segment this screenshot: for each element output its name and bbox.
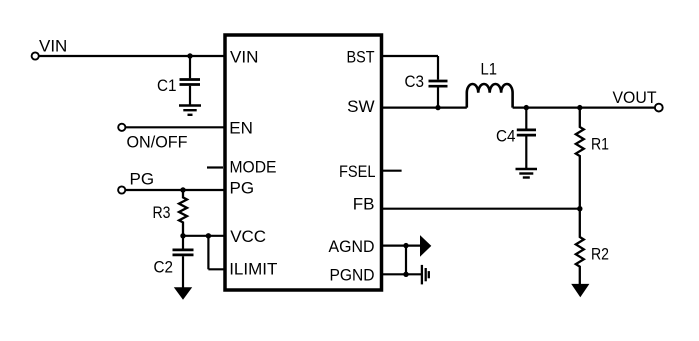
svg-text:C2: C2 — [154, 258, 174, 277]
svg-text:AGND: AGND — [329, 237, 375, 256]
svg-text:BST: BST — [347, 47, 375, 66]
svg-text:C4: C4 — [496, 127, 516, 146]
svg-text:R1: R1 — [591, 135, 609, 154]
svg-text:FB: FB — [353, 195, 375, 214]
svg-text:ILIMIT: ILIMIT — [229, 259, 277, 278]
svg-text:EN: EN — [229, 119, 253, 138]
svg-text:PG: PG — [130, 170, 155, 189]
svg-text:ON/OFF: ON/OFF — [127, 133, 188, 152]
svg-text:FSEL: FSEL — [339, 162, 376, 181]
svg-text:VIN: VIN — [39, 37, 67, 56]
svg-text:R2: R2 — [591, 245, 609, 264]
svg-text:SW: SW — [347, 97, 374, 116]
svg-text:R3: R3 — [153, 203, 171, 222]
svg-text:VCC: VCC — [230, 227, 266, 246]
svg-text:VOUT: VOUT — [613, 88, 657, 107]
svg-text:PGND: PGND — [330, 266, 375, 285]
svg-text:C3: C3 — [405, 72, 425, 91]
svg-text:VIN: VIN — [230, 47, 259, 66]
svg-text:MODE: MODE — [230, 158, 277, 177]
svg-text:PG: PG — [230, 178, 255, 197]
svg-text:C1: C1 — [157, 76, 177, 95]
svg-text:L1: L1 — [481, 60, 498, 79]
